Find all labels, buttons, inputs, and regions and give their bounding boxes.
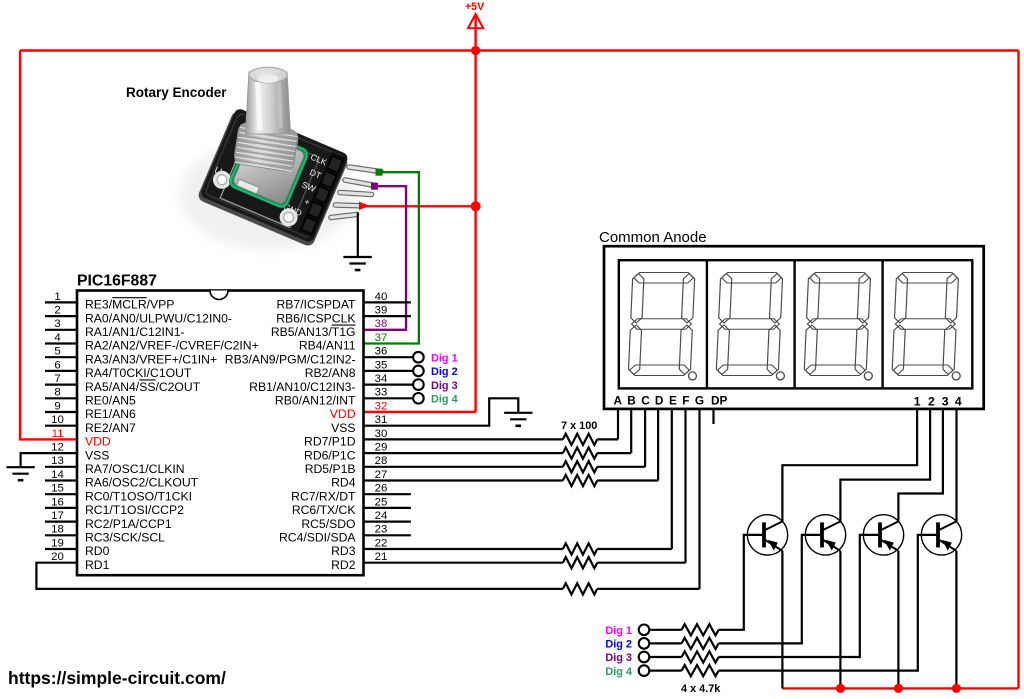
display segment pin labels A B C D E F G DP (614, 393, 728, 407)
pin 34 RB1/AN10/C12IN3- (249, 373, 387, 394)
resistor R7 (100 ohm, segment G) via pin20 loop (36, 409, 699, 595)
svg-text:Dig 4: Dig 4 (605, 666, 632, 678)
node Dig 4 input (605, 665, 649, 678)
svg-text:Dig 1: Dig 1 (605, 625, 632, 637)
svg-text:F: F (682, 393, 689, 407)
pin 38 RB5/AN13/T1G (271, 318, 388, 339)
svg-text:G: G (695, 393, 704, 407)
svg-text:38: 38 (375, 318, 388, 330)
node Dig 2 input (605, 638, 649, 650)
pin 9 RE1/AN6 (45, 400, 136, 421)
svg-text:5: 5 (54, 346, 60, 358)
svg-text:31: 31 (375, 414, 388, 426)
resistor R6 (100 ohm, segment F) (364, 409, 686, 568)
svg-text:Dig 4: Dig 4 (431, 394, 458, 406)
pin 40 RB7/ICSPDAT (276, 291, 410, 312)
svg-text:RA5/AN4/SS/C2OUT: RA5/AN4/SS/C2OUT (85, 380, 201, 394)
transistor Q2 (PNP) (805, 515, 845, 689)
pin 2 RA0/AN0/ULPWU/C12IN0- (45, 305, 232, 326)
pin 37 RB4/AN11 (299, 332, 388, 353)
wire encoder CLK to RB4 (green) (364, 172, 419, 343)
label 7 x 100 (561, 420, 597, 432)
svg-text:RA6/OSC2/CLKOUT: RA6/OSC2/CLKOUT (85, 476, 199, 490)
label 4 x 4.7k (681, 683, 721, 695)
svg-text:Dig 2: Dig 2 (605, 639, 632, 651)
svg-text:21: 21 (375, 551, 388, 563)
svg-text:29: 29 (375, 442, 388, 454)
pin 25 RC6/TX/CK (292, 496, 411, 517)
svg-text:Common Anode: Common Anode (599, 229, 707, 246)
wire VDD bottom rail to transistor emitters (782, 687, 1018, 689)
7-segment display inner frame (619, 260, 973, 388)
svg-text:27: 27 (375, 469, 388, 481)
svg-text:RD2: RD2 (331, 558, 356, 572)
svg-text:RA4/T0CKI/C1OUT: RA4/T0CKI/C1OUT (85, 366, 192, 380)
svg-text:RC1/T1OSI/CCP2: RC1/T1OSI/CCP2 (85, 503, 184, 517)
wire +5V riser (474, 16, 476, 412)
node Dig 3 output (364, 379, 458, 391)
svg-text:Dig 3: Dig 3 (431, 380, 458, 392)
7-segment digit 1 (628, 273, 696, 380)
pin 19 RD0 (45, 537, 110, 558)
pin 18 RC3/SCK/SCL (45, 524, 165, 545)
resistor R4 (100 ohm, segment D) (364, 409, 659, 486)
pin 13 RA7/OSC1/CLKIN (45, 455, 185, 476)
svg-text:RD0: RD0 (85, 544, 110, 558)
svg-text:22: 22 (375, 537, 388, 549)
svg-text:35: 35 (375, 359, 388, 371)
pin 32 VDD (330, 400, 388, 421)
7-segment digit 2 (716, 273, 784, 380)
svg-text:30: 30 (375, 428, 388, 440)
IC U1 PIC16F887 body (77, 291, 364, 576)
ground encoder (343, 257, 371, 270)
wire display pin 2 to Q2 collector (840, 409, 930, 522)
svg-text:PIC16F887: PIC16F887 (77, 273, 157, 290)
svg-text:RD6/P1C: RD6/P1C (304, 448, 356, 462)
svg-text:12: 12 (51, 442, 64, 454)
junction Q2 emitter on +5V rail (836, 684, 845, 693)
svg-text:25: 25 (375, 496, 388, 508)
pin 26 RC7/RX/DT (291, 483, 411, 504)
resistor R9 (4.7k) to Q2 base (649, 535, 820, 649)
label PIC16F887 (77, 273, 157, 290)
svg-text:8: 8 (54, 387, 60, 399)
label website (8, 668, 226, 688)
svg-text:Dig 2: Dig 2 (431, 366, 458, 378)
svg-text:C: C (641, 393, 650, 407)
pin 33 RB0/AN12/INT (275, 387, 387, 408)
pin 10 RE2/AN7 (45, 414, 136, 435)
svg-text:RA0/AN0/ULPWU/C12IN0-: RA0/AN0/ULPWU/C12IN0- (85, 311, 232, 325)
svg-text:RB7/ICSPDAT: RB7/ICSPDAT (276, 298, 356, 312)
wire display pin 1 to Q1 collector (782, 409, 917, 522)
pin 39 RB6/ICSPCLK (276, 305, 411, 326)
pin 21 RD2 (331, 551, 387, 572)
svg-text:RD4: RD4 (331, 476, 356, 490)
svg-text:RB4/AN11: RB4/AN11 (299, 339, 356, 353)
wire encoder DT to RB5 (purple) (364, 186, 407, 330)
svg-text:RC7/RX/DT: RC7/RX/DT (291, 489, 356, 503)
node Dig 2 output (364, 366, 458, 379)
svg-text:RC6/TX/CK: RC6/TX/CK (292, 503, 356, 517)
pin 20 RD1 (51, 551, 109, 572)
svg-text:RC4/SDI/SDA: RC4/SDI/SDA (279, 531, 356, 545)
svg-text:1: 1 (54, 291, 60, 303)
7-segment digit 4 (892, 273, 960, 380)
7-segment digit 3 (804, 273, 872, 380)
pin 3 RA1/AN1/C12IN1- (45, 318, 185, 339)
node Dig 3 input (605, 652, 649, 665)
svg-text:16: 16 (51, 496, 64, 508)
svg-text:Dig 1: Dig 1 (431, 352, 458, 364)
svg-text:26: 26 (375, 483, 388, 495)
resistor R5 (100 ohm, segment E) (364, 409, 672, 555)
pin 8 RE0/AN5 (45, 387, 136, 408)
svg-text:7: 7 (54, 373, 60, 385)
svg-text:RA3/AN3/VREF+/C1IN+: RA3/AN3/VREF+/C1IN+ (85, 352, 217, 366)
svg-text:RB6/ICSPCLK: RB6/ICSPCLK (276, 311, 355, 325)
svg-text:RE2/AN7: RE2/AN7 (85, 421, 136, 435)
svg-text:A: A (614, 393, 623, 407)
ground VSS right (504, 413, 532, 426)
svg-text:RD1: RD1 (85, 558, 110, 572)
junction Q4 emitter on +5V rail (952, 684, 961, 693)
display digit pin labels 1 2 3 4 (914, 394, 962, 408)
resistor R11 (4.7k) to Q4 base (649, 535, 936, 676)
svg-text:RA2/AN2/VREF-/CVREF/C2IN+: RA2/AN2/VREF-/CVREF/C2IN+ (85, 339, 259, 353)
wire VDD to pin 32 (364, 411, 476, 413)
svg-text:VSS: VSS (331, 421, 355, 435)
svg-text:11: 11 (52, 428, 64, 440)
svg-text:VSS: VSS (85, 448, 109, 462)
svg-text:1: 1 (914, 394, 921, 408)
svg-text:RB5/AN13/T1G: RB5/AN13/T1G (271, 325, 356, 339)
svg-text:23: 23 (375, 524, 388, 536)
ground VSS left (6, 467, 34, 480)
svg-text:RD3: RD3 (331, 544, 356, 558)
svg-text:34: 34 (375, 373, 388, 385)
svg-text:RA7/OSC1/CLKIN: RA7/OSC1/CLKIN (85, 462, 185, 476)
svg-text:RE1/AN6: RE1/AN6 (85, 407, 136, 421)
resistor R8 (4.7k) to Q1 base (649, 535, 762, 636)
svg-text:3: 3 (942, 394, 949, 408)
pin 36 RB3/AN9/PGM/C12IN2- (225, 346, 388, 367)
pin 22 RD3 (331, 537, 387, 558)
svg-text:D: D (655, 393, 664, 407)
pin 5 RA3/AN3/VREF+/C1IN+ (45, 346, 217, 367)
svg-text:2: 2 (928, 394, 935, 408)
pin 28 RD5/P1B (305, 455, 388, 476)
svg-text:36: 36 (375, 346, 388, 358)
svg-text:37: 37 (375, 332, 388, 344)
pin 35 RB2/AN8 (305, 359, 388, 380)
svg-text:18: 18 (51, 524, 64, 536)
svg-text:RB0/AN12/INT: RB0/AN12/INT (275, 394, 356, 408)
svg-text:4 x 4.7k: 4 x 4.7k (681, 683, 721, 695)
svg-text:33: 33 (375, 387, 388, 399)
transistor Q1 (PNP) (747, 515, 787, 689)
svg-text:28: 28 (375, 455, 388, 467)
svg-text:RC3/SCK/SCL: RC3/SCK/SCL (85, 531, 165, 545)
svg-text:39: 39 (375, 305, 388, 317)
node Dig 1 input (605, 625, 649, 638)
resistor R3 (100 ohm, segment C) (364, 409, 646, 473)
pin 30 RD7/P1D (304, 428, 387, 449)
svg-text:RC2/P1A/CCP1: RC2/P1A/CCP1 (85, 517, 172, 531)
svg-text:13: 13 (51, 455, 64, 467)
resistor R1 (100 ohm, segment A) (364, 409, 619, 445)
svg-text:40: 40 (375, 291, 388, 303)
svg-text:RB3/AN9/PGM/C12IN2-: RB3/AN9/PGM/C12IN2- (225, 352, 356, 366)
svg-text:RD5/P1B: RD5/P1B (305, 462, 356, 476)
svg-text:9: 9 (54, 400, 60, 412)
resistor R2 (100 ohm, segment B) (364, 409, 632, 459)
node Dig 1 output (364, 352, 458, 364)
wire VSS pin31 to ground (364, 398, 519, 425)
svg-text:RC5/SDO: RC5/SDO (301, 517, 355, 531)
svg-text:VDD: VDD (85, 435, 111, 449)
transistor Q3 (PNP) (863, 515, 903, 689)
pin 27 RD4 (331, 469, 387, 490)
pin 15 RC0/T1OSO/T1CKI (45, 483, 192, 504)
svg-text:Rotary Encoder: Rotary Encoder (126, 85, 227, 100)
pin 29 RD6/P1C (304, 442, 387, 463)
svg-text:2: 2 (54, 305, 60, 317)
svg-text:RB2/AN8: RB2/AN8 (305, 366, 356, 380)
svg-text:RD7/P1D: RD7/P1D (304, 435, 356, 449)
junction Q3 emitter on +5V rail (894, 684, 903, 693)
svg-text:20: 20 (51, 551, 64, 563)
pin 23 RC4/SDI/SDA (279, 524, 411, 545)
svg-text:VDD: VDD (330, 407, 356, 421)
svg-text:+5V: +5V (465, 1, 484, 13)
pin 24 RC5/SDO (301, 510, 411, 531)
svg-text:3: 3 (54, 318, 60, 330)
junction encoder supply (471, 201, 481, 211)
svg-text:6: 6 (54, 359, 60, 371)
wire encoder GND down (357, 213, 359, 258)
label Common Anode (599, 229, 707, 246)
pin 4 RA2/AN2/VREF-/CVREF/C2IN+ (45, 332, 259, 353)
solder terminals on encoder pins (359, 169, 383, 210)
svg-text:4: 4 (54, 332, 60, 344)
pin 11 VDD (52, 428, 111, 449)
wire VDD right rail (1017, 51, 1019, 689)
pin 14 RA6/OSC2/CLKOUT (45, 469, 199, 490)
svg-text:17: 17 (51, 510, 64, 522)
svg-text:RA1/AN1/C12IN1-: RA1/AN1/C12IN1- (85, 325, 185, 339)
svg-text:B: B (627, 393, 636, 407)
svg-text:4: 4 (955, 394, 962, 408)
svg-text:RE0/AN5: RE0/AN5 (85, 394, 136, 408)
label Rotary Encoder (126, 85, 227, 100)
svg-text:7 x 100: 7 x 100 (561, 420, 597, 432)
svg-text:10: 10 (51, 414, 64, 426)
wire display pin 3 to Q3 collector (898, 409, 943, 522)
svg-text:DP: DP (711, 393, 728, 407)
pin 1 RE3/MCLR/VPP (45, 291, 174, 312)
transistor Q4 (PNP) (921, 515, 961, 689)
svg-text:RB1/AN10/C12IN3-: RB1/AN10/C12IN3- (249, 380, 355, 394)
pin 16 RC1/T1OSI/CCP2 (45, 496, 184, 517)
svg-text:E: E (669, 393, 677, 407)
wire VSS pin12 to ground (21, 453, 77, 467)
node Dig 4 output (364, 393, 458, 406)
pin 7 RA5/AN4/SS/C2OUT (45, 373, 201, 394)
resistor R10 (4.7k) to Q3 base (649, 535, 878, 663)
wire VDD top rail (20, 49, 1019, 51)
pin 6 RA4/T0CKI/C1OUT (45, 359, 192, 380)
pin 12 VSS (51, 442, 109, 463)
svg-text:14: 14 (51, 469, 64, 481)
svg-text:19: 19 (51, 537, 64, 549)
+5V supply symbol (465, 1, 484, 28)
pin 17 RC2/P1A/CCP1 (45, 510, 172, 531)
svg-text:RE3/MCLR/VPP: RE3/MCLR/VPP (85, 298, 174, 312)
wire display pin 4 to Q4 collector (955, 409, 957, 522)
wire +5V to encoder + pin (361, 205, 476, 207)
7-segment display DIS1 outer body (604, 246, 984, 409)
svg-text:RC0/T1OSO/T1CKI: RC0/T1OSO/T1CKI (85, 489, 192, 503)
svg-text:32: 32 (375, 400, 388, 412)
junction top rail (471, 46, 480, 55)
svg-text:24: 24 (375, 510, 388, 522)
wire VDD left branch to pin 11 (20, 51, 77, 440)
rotary encoder module (180, 67, 381, 250)
svg-text:https://simple-circuit.com/: https://simple-circuit.com/ (8, 668, 226, 688)
pin 31 VSS (331, 414, 387, 435)
svg-text:Dig 3: Dig 3 (605, 652, 632, 664)
display DP stub (712, 409, 714, 424)
svg-text:15: 15 (51, 483, 64, 495)
